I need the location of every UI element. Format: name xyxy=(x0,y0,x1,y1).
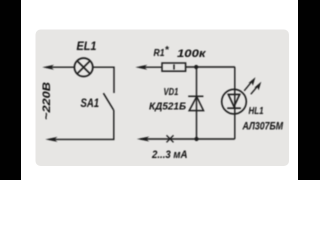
svg-text:КД521Б: КД521Б xyxy=(149,101,187,113)
svg-text:АЛ307БМ: АЛ307БМ xyxy=(242,121,284,133)
LED HL1 xyxy=(222,89,247,114)
svg-text:100к: 100к xyxy=(177,48,207,60)
lamp EL1 xyxy=(74,58,92,76)
diode VD1 xyxy=(188,96,203,110)
bottom-left arrow to mains xyxy=(45,137,57,142)
left black bar xyxy=(0,0,21,180)
wire resistor to junction and on to LED corner xyxy=(186,66,235,68)
wire LED down and bottom run to the left xyxy=(141,138,235,140)
svg-text:~220В: ~220В xyxy=(41,82,53,120)
bottom arrow to mains (right circuit) xyxy=(137,137,150,142)
label R1* 100k xyxy=(154,45,208,60)
wire junction down to diode xyxy=(196,67,198,139)
svg-text:R1: R1 xyxy=(154,47,165,59)
wire with arrow into resistor xyxy=(135,65,161,70)
junction node bottom xyxy=(194,137,198,141)
svg-text:HL1: HL1 xyxy=(249,105,264,117)
wire switch down to bottom corner xyxy=(49,110,114,139)
resistor R1 xyxy=(162,63,186,71)
switch SA1 xyxy=(103,93,113,110)
wire top-left with arrow to mains xyxy=(42,65,74,70)
junction node top xyxy=(194,65,198,69)
break mark x on bottom wire xyxy=(167,135,174,142)
svg-text:VD1: VD1 xyxy=(164,87,179,98)
LED emission arrows xyxy=(244,77,261,94)
paper panel xyxy=(36,30,290,167)
wire lamp to corner and down to switch xyxy=(93,67,114,93)
svg-text:2...3 мА: 2...3 мА xyxy=(151,149,187,161)
right black bar xyxy=(298,0,320,180)
svg-text:SA1: SA1 xyxy=(81,98,100,110)
svg-text:EL1: EL1 xyxy=(77,41,97,53)
wire corner down to LED xyxy=(234,67,236,139)
